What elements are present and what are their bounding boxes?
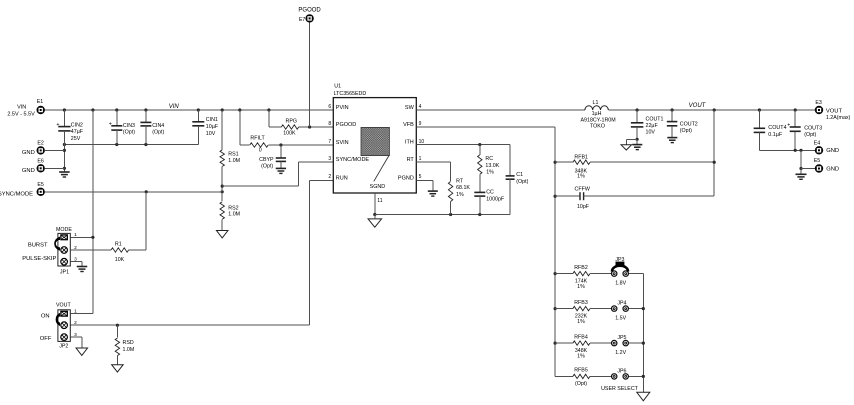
- svg-text:RFILT: RFILT: [250, 136, 265, 142]
- svg-text:ON: ON: [41, 314, 50, 320]
- svg-text:100K: 100K: [283, 131, 296, 137]
- svg-text:1.0M: 1.0M: [228, 158, 240, 164]
- svg-text:BURST: BURST: [28, 242, 48, 248]
- svg-text:E2: E2: [37, 140, 44, 146]
- svg-text:+: +: [787, 123, 790, 129]
- svg-text:U1: U1: [334, 84, 341, 90]
- svg-text:RFB2: RFB2: [574, 265, 588, 271]
- svg-text:JP2: JP2: [59, 344, 68, 350]
- svg-text:RT: RT: [407, 157, 415, 163]
- svg-text:4: 4: [419, 104, 422, 110]
- svg-text:1%: 1%: [577, 174, 585, 180]
- svg-text:JP1: JP1: [60, 269, 69, 275]
- svg-text:VOUT: VOUT: [826, 108, 843, 114]
- svg-text:5: 5: [419, 174, 422, 180]
- svg-text:1.0M: 1.0M: [228, 212, 240, 218]
- svg-text:JP5: JP5: [617, 335, 626, 341]
- svg-text:68.1K: 68.1K: [456, 185, 470, 191]
- svg-text:(Opt): (Opt): [804, 132, 816, 138]
- svg-text:VFB: VFB: [403, 122, 414, 128]
- svg-text:RSD: RSD: [123, 340, 134, 346]
- svg-text:LTC3565EDD: LTC3565EDD: [334, 91, 367, 97]
- svg-text:1%: 1%: [486, 170, 494, 176]
- svg-text:RT: RT: [456, 178, 464, 184]
- svg-text:E3: E3: [815, 100, 822, 106]
- svg-text:10V: 10V: [646, 129, 656, 135]
- svg-text:(Opt): (Opt): [123, 129, 135, 135]
- svg-text:22µF: 22µF: [646, 123, 659, 129]
- svg-text:JP4: JP4: [617, 301, 626, 307]
- svg-text:VIN: VIN: [17, 105, 26, 111]
- svg-text:PULSE-SKIP: PULSE-SKIP: [22, 256, 56, 262]
- svg-text:RPG: RPG: [286, 119, 297, 125]
- svg-text:A918CY-1R0M: A918CY-1R0M: [581, 118, 616, 124]
- svg-text:(Opt): (Opt): [680, 128, 692, 134]
- svg-text:E5: E5: [814, 158, 821, 164]
- svg-text:1.5V: 1.5V: [615, 315, 626, 321]
- svg-text:10K: 10K: [115, 257, 125, 263]
- svg-text:RS2: RS2: [228, 205, 238, 211]
- svg-text:(Opt): (Opt): [516, 179, 528, 185]
- svg-text:1: 1: [419, 156, 422, 162]
- svg-text:0: 0: [259, 148, 262, 154]
- svg-text:RC: RC: [485, 156, 493, 162]
- svg-text:CBYP: CBYP: [259, 157, 274, 163]
- svg-text:PGOOD: PGOOD: [298, 8, 321, 14]
- svg-text:JP6: JP6: [617, 368, 626, 374]
- svg-text:VOUT: VOUT: [56, 303, 71, 309]
- svg-text:10pF: 10pF: [577, 204, 590, 210]
- svg-text:COUT1: COUT1: [646, 117, 664, 123]
- svg-text:E4: E4: [814, 140, 821, 146]
- svg-text:SVIN: SVIN: [336, 140, 349, 146]
- svg-text:OFF: OFF: [40, 336, 52, 342]
- svg-text:RS1: RS1: [228, 151, 238, 157]
- svg-text:C1: C1: [516, 172, 523, 178]
- svg-text:E5: E5: [37, 182, 44, 188]
- svg-text:SGND: SGND: [370, 184, 386, 190]
- svg-text:TOKO: TOKO: [590, 124, 605, 130]
- svg-text:10µF: 10µF: [206, 124, 219, 130]
- svg-text:E7: E7: [299, 17, 306, 23]
- svg-text:RFB1: RFB1: [574, 154, 588, 160]
- svg-text:CIN1: CIN1: [206, 117, 218, 123]
- svg-text:GND: GND: [826, 148, 839, 154]
- svg-text:13.0K: 13.0K: [485, 163, 499, 169]
- svg-text:E1: E1: [37, 99, 44, 105]
- svg-text:PGND: PGND: [398, 175, 414, 181]
- svg-text:USER SELECT: USER SELECT: [601, 386, 639, 392]
- svg-text:GND: GND: [826, 166, 839, 172]
- svg-text:ITH: ITH: [405, 139, 414, 145]
- svg-text:1.0M: 1.0M: [123, 347, 135, 353]
- svg-text:10V: 10V: [206, 131, 216, 137]
- svg-text:GND: GND: [22, 168, 35, 174]
- svg-text:L1: L1: [593, 100, 599, 106]
- svg-text:E6: E6: [37, 158, 44, 164]
- svg-text:CIN2: CIN2: [71, 122, 83, 128]
- svg-text:6: 6: [328, 104, 331, 110]
- svg-text:SW: SW: [405, 105, 415, 111]
- svg-text:SYNC/MODE: SYNC/MODE: [336, 157, 370, 163]
- svg-text:2.5V - 5.5V: 2.5V - 5.5V: [7, 111, 35, 117]
- svg-text:1.2A(max): 1.2A(max): [826, 115, 851, 121]
- svg-text:(Opt): (Opt): [261, 164, 273, 170]
- svg-text:1.2V: 1.2V: [615, 350, 626, 356]
- svg-text:CIN4: CIN4: [152, 123, 164, 129]
- svg-text:CC: CC: [486, 190, 494, 196]
- svg-text:2: 2: [328, 174, 331, 180]
- svg-text:10: 10: [419, 139, 425, 145]
- svg-text:25V: 25V: [71, 136, 81, 142]
- svg-text:1%: 1%: [577, 284, 585, 290]
- svg-text:COUT2: COUT2: [680, 121, 698, 127]
- svg-text:RUN: RUN: [336, 175, 348, 181]
- svg-text:VOUT: VOUT: [689, 103, 707, 109]
- svg-text:1000pF: 1000pF: [486, 197, 505, 203]
- svg-text:(Opt): (Opt): [575, 381, 587, 387]
- svg-text:+: +: [109, 121, 112, 127]
- svg-text:CFFW: CFFW: [575, 186, 590, 192]
- svg-text:8: 8: [328, 121, 331, 127]
- svg-text:RFB3: RFB3: [574, 300, 588, 306]
- svg-text:+: +: [56, 122, 59, 128]
- svg-text:9: 9: [419, 121, 422, 127]
- svg-text:PGOOD: PGOOD: [336, 122, 357, 128]
- svg-text:CIN3: CIN3: [123, 123, 135, 129]
- svg-text:1%: 1%: [577, 354, 585, 360]
- svg-text:1%: 1%: [577, 319, 585, 325]
- svg-text:R1: R1: [115, 242, 122, 248]
- svg-text:RFB5: RFB5: [574, 368, 588, 374]
- svg-text:SYNC/MODE: SYNC/MODE: [0, 191, 33, 197]
- svg-text:COUT3: COUT3: [804, 125, 822, 131]
- svg-text:47µF: 47µF: [71, 129, 84, 135]
- svg-text:RFB4: RFB4: [574, 334, 588, 340]
- svg-text:(Opt): (Opt): [152, 129, 164, 135]
- svg-text:7: 7: [328, 139, 331, 145]
- svg-text:GND: GND: [22, 150, 35, 156]
- svg-text:3: 3: [328, 156, 331, 162]
- svg-text:2: 2: [74, 320, 77, 326]
- svg-text:1.8V: 1.8V: [615, 280, 626, 286]
- svg-text:JP3: JP3: [615, 257, 624, 263]
- svg-text:1µH: 1µH: [592, 111, 602, 117]
- svg-text:11: 11: [377, 198, 382, 204]
- svg-text:COUT4: COUT4: [768, 125, 786, 131]
- svg-text:VIN: VIN: [169, 104, 180, 110]
- svg-text:1%: 1%: [456, 192, 464, 198]
- svg-text:0.1µF: 0.1µF: [768, 132, 783, 138]
- svg-text:PVIN: PVIN: [336, 105, 349, 111]
- svg-text:MODE: MODE: [56, 227, 72, 233]
